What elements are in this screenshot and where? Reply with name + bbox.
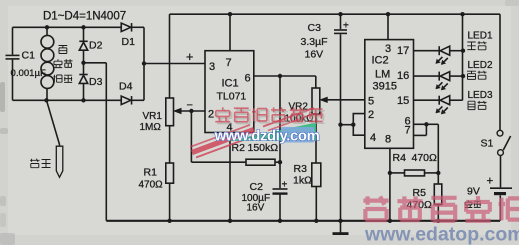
svg-text:15: 15 xyxy=(397,95,409,107)
svg-text:−: − xyxy=(187,100,193,112)
svg-text:D1~D4=1N4007: D1~D4=1N4007 xyxy=(43,11,126,23)
svg-text:+: + xyxy=(343,21,349,32)
svg-text:3.3µF: 3.3µF xyxy=(301,36,328,48)
svg-text:3: 3 xyxy=(385,43,391,55)
svg-text:4: 4 xyxy=(370,132,376,144)
svg-text:www.dzdiy.com: www.dzdiy.com xyxy=(214,129,320,145)
svg-text:5: 5 xyxy=(368,96,374,108)
svg-text:S1: S1 xyxy=(481,138,494,150)
svg-text:LED3: LED3 xyxy=(468,90,493,101)
svg-text:R3: R3 xyxy=(294,163,308,175)
svg-text:470Ω: 470Ω xyxy=(412,152,438,164)
svg-text:16: 16 xyxy=(397,70,409,82)
svg-text:TL071: TL071 xyxy=(217,91,247,103)
svg-text:R4: R4 xyxy=(393,152,407,164)
svg-text:3: 3 xyxy=(209,61,215,73)
svg-text:C1: C1 xyxy=(22,50,36,62)
svg-text:+: + xyxy=(282,180,288,191)
svg-text:+: + xyxy=(186,50,193,64)
svg-text:6: 6 xyxy=(245,73,251,85)
svg-text:1MΩ: 1MΩ xyxy=(140,122,162,133)
svg-text:LED1: LED1 xyxy=(468,31,493,42)
svg-text:LED2: LED2 xyxy=(468,60,493,71)
svg-text:16V: 16V xyxy=(247,203,265,214)
svg-text:C3: C3 xyxy=(308,22,322,34)
svg-text:IC2: IC2 xyxy=(372,55,389,67)
svg-text:C2: C2 xyxy=(250,181,264,193)
svg-text:R1: R1 xyxy=(144,167,158,179)
svg-text:9V: 9V xyxy=(467,186,480,198)
svg-text:LM: LM xyxy=(375,69,390,81)
svg-text:16V: 16V xyxy=(305,49,324,61)
svg-text:3915: 3915 xyxy=(373,81,397,93)
svg-text:+: + xyxy=(487,176,494,188)
svg-text:D4: D4 xyxy=(119,81,133,93)
svg-text:17: 17 xyxy=(397,45,409,57)
svg-text:D1: D1 xyxy=(122,36,136,48)
svg-text:VR1: VR1 xyxy=(143,111,163,122)
svg-text:8: 8 xyxy=(385,134,391,146)
svg-text:0.001µF: 0.001µF xyxy=(11,68,47,79)
svg-text:IC1: IC1 xyxy=(222,78,239,90)
svg-text:1kΩ: 1kΩ xyxy=(293,175,312,187)
svg-text:D2: D2 xyxy=(89,40,103,52)
svg-text:2: 2 xyxy=(368,109,374,121)
svg-text:D3: D3 xyxy=(89,76,103,88)
svg-text:2: 2 xyxy=(208,109,214,121)
svg-text:470Ω: 470Ω xyxy=(139,180,164,191)
svg-text:7: 7 xyxy=(405,125,411,137)
svg-text:7: 7 xyxy=(226,57,232,69)
svg-text:www.edatop.com: www.edatop.com xyxy=(364,224,519,245)
